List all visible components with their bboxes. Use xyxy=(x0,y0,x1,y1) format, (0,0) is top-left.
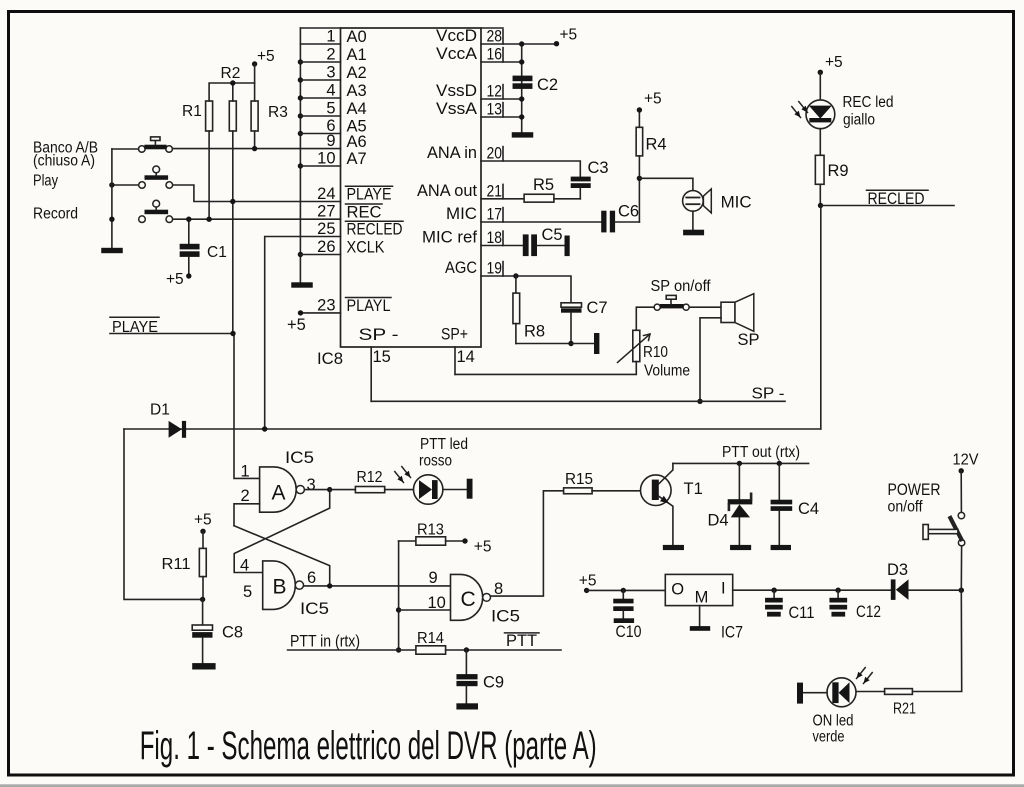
junction rail/Play xyxy=(109,182,114,187)
svg-text:+5: +5 xyxy=(474,538,492,555)
svg-text:RECLED: RECLED xyxy=(347,221,403,239)
svg-text:10: 10 xyxy=(317,150,335,168)
svg-text:RECLED: RECLED xyxy=(868,190,925,208)
wire D1 anode down-left xyxy=(124,429,203,599)
junction rail/Record xyxy=(109,217,114,222)
switch SW1 Banco A/B xyxy=(139,137,173,152)
resistor R15 xyxy=(564,471,652,494)
junction vertical/gateC-in10 xyxy=(396,607,401,612)
capacitor C8 xyxy=(192,599,243,663)
wire PTT out line xyxy=(673,462,809,464)
svg-text:A2: A2 xyxy=(347,64,367,82)
junction R8/C7 xyxy=(568,341,573,346)
svg-text:C9: C9 xyxy=(483,673,504,691)
svg-text:R2: R2 xyxy=(221,65,241,82)
svg-text:SP+: SP+ xyxy=(441,326,468,344)
svg-text:5: 5 xyxy=(243,583,252,601)
svg-text:+5: +5 xyxy=(257,48,275,65)
svg-text:C8: C8 xyxy=(222,623,243,641)
svg-text:4: 4 xyxy=(326,82,335,100)
pin tick 21 xyxy=(502,184,504,198)
ground (C7/R8) xyxy=(594,333,599,354)
svg-text:D4: D4 xyxy=(708,511,729,529)
switch SP on/off xyxy=(654,295,689,310)
IC8 left address bus xyxy=(299,28,301,283)
svg-text:REC: REC xyxy=(347,203,382,221)
microphone MIC xyxy=(683,189,752,213)
wire pin9 A6 (from Banco switch) xyxy=(172,148,340,150)
svg-text:PTT in (rtx): PTT in (rtx) xyxy=(290,633,360,651)
wire pin20 ANA in xyxy=(481,161,580,177)
svg-text:R21: R21 xyxy=(893,700,916,717)
label Banco A/B xyxy=(33,139,98,169)
svg-text:IC5: IC5 xyxy=(300,600,329,618)
svg-text:21: 21 xyxy=(487,182,503,200)
svg-text:REC led: REC led xyxy=(843,94,894,111)
junction C10 xyxy=(621,588,626,593)
svg-text:R15: R15 xyxy=(565,471,593,488)
wire to ground bar xyxy=(571,343,594,345)
svg-text:on/off: on/off xyxy=(888,498,923,515)
resistor R2 xyxy=(221,65,241,131)
svg-text:C6: C6 xyxy=(618,203,639,221)
wire 12V to switch xyxy=(960,471,962,513)
wire gateC out to R15 xyxy=(491,491,564,596)
cross-couple B-out to A-in2 xyxy=(234,526,330,586)
wire pin12 VssD xyxy=(481,98,522,100)
regulator IC7 xyxy=(665,574,732,606)
svg-text:PLAYE: PLAYE xyxy=(347,186,392,204)
wire RECLED vertical xyxy=(820,206,822,430)
svg-text:2: 2 xyxy=(326,46,335,64)
nand gate IC5-A xyxy=(260,467,305,512)
junction R2 top xyxy=(230,80,235,85)
node +5 (pin23) xyxy=(287,310,306,334)
svg-text:I: I xyxy=(721,579,726,597)
wire power down to R21 xyxy=(912,590,961,691)
IC IC8 body xyxy=(300,28,503,347)
svg-text:+5: +5 xyxy=(287,316,306,334)
diode D3 xyxy=(887,561,961,600)
junction R11/gateB-in5 xyxy=(200,597,205,602)
svg-text:C3: C3 xyxy=(588,159,609,177)
svg-text:A1: A1 xyxy=(347,46,367,64)
svg-text:verde: verde xyxy=(813,728,845,745)
svg-text:A3: A3 xyxy=(347,82,367,100)
svg-text:IC8: IC8 xyxy=(317,350,343,368)
pin tick 17 xyxy=(502,208,504,222)
ground (IC7) xyxy=(690,626,710,631)
junction R9/RECLED xyxy=(818,203,823,208)
capacitor C5 xyxy=(523,226,565,256)
pin tick 16 xyxy=(502,48,504,62)
wire R1R2R3 tops xyxy=(209,83,255,101)
resistor R9 xyxy=(815,155,848,184)
wire Vcc bus xyxy=(521,44,523,132)
LED arrows (ON led) xyxy=(864,673,873,684)
junction gateB out xyxy=(327,583,332,588)
junction R4/C6/MIC xyxy=(637,176,642,181)
wire SP- line xyxy=(371,400,785,402)
svg-text:SP -: SP - xyxy=(752,385,785,402)
svg-text:R13: R13 xyxy=(417,521,444,538)
wire gateB out to gateC in9 xyxy=(304,585,451,587)
junction PLAYE/vertical xyxy=(230,331,235,336)
node +5 (IC7) xyxy=(579,572,597,593)
svg-text:IC5: IC5 xyxy=(285,449,314,467)
switch SW3 Record xyxy=(139,200,173,222)
svg-text:C7: C7 xyxy=(587,299,608,317)
svg-text:VssD: VssD xyxy=(436,82,477,100)
IC8 pin label RECLED xyxy=(346,221,404,239)
wire pin16 VccA xyxy=(481,61,522,63)
svg-text:PTT led: PTT led xyxy=(420,436,468,453)
svg-text:23: 23 xyxy=(317,296,335,314)
node +5 (R13) xyxy=(462,538,491,555)
wire speaker to SP- line xyxy=(700,318,721,402)
capacitor C9 xyxy=(456,650,504,703)
net PTT label xyxy=(505,632,540,650)
junction bus/pin5 xyxy=(298,113,303,118)
node 12V xyxy=(953,451,979,473)
svg-text:M: M xyxy=(695,589,709,607)
svg-text:C5: C5 xyxy=(542,226,563,244)
wire pin5 A4 xyxy=(300,115,340,117)
junction bus/pin4 xyxy=(298,95,303,100)
svg-text:18: 18 xyxy=(487,229,503,247)
junction vertical/PTTin xyxy=(396,647,401,652)
ground (IC8 bus) xyxy=(291,282,313,287)
junction RECLED/pin25-vertical xyxy=(262,426,267,431)
svg-text:5: 5 xyxy=(326,100,335,118)
svg-text:+5: +5 xyxy=(579,572,597,589)
wire pin6 A5 xyxy=(300,133,340,135)
label PTT led rosso xyxy=(419,436,468,470)
svg-text:SP on/off: SP on/off xyxy=(651,278,712,295)
wire pin2 A1 xyxy=(300,61,340,63)
svg-text:14: 14 xyxy=(457,348,475,366)
svg-text:XCLK: XCLK xyxy=(347,239,385,257)
nand gate IC5-B xyxy=(263,561,304,610)
wire pin19 AGC xyxy=(481,276,571,303)
wire +5 to LED xyxy=(819,72,821,100)
node +5 (REC led) xyxy=(818,54,843,75)
svg-text:A6: A6 xyxy=(347,133,367,151)
svg-text:26: 26 xyxy=(317,238,335,256)
resistor R13 xyxy=(399,521,465,545)
svg-text:MIC ref: MIC ref xyxy=(422,229,477,247)
wire to MIC xyxy=(639,178,693,190)
pin tick 28 xyxy=(502,30,504,44)
resistor R1 xyxy=(182,101,213,219)
ground (ON led) xyxy=(797,683,803,704)
svg-text:9: 9 xyxy=(326,132,335,150)
ground (C5) xyxy=(565,236,570,257)
svg-text:SP: SP xyxy=(738,331,760,349)
IC8 pin label PLAYE xyxy=(346,186,393,204)
wire R9 to junction xyxy=(819,184,821,205)
node +5 (C1) xyxy=(166,271,192,288)
svg-text:C1: C1 xyxy=(207,244,227,261)
svg-text:C2: C2 xyxy=(537,76,558,94)
ground (switch rail) xyxy=(101,248,123,253)
svg-text:+5: +5 xyxy=(825,54,843,71)
ground (C4) xyxy=(771,545,791,550)
capacitor C12 xyxy=(829,590,881,621)
label POWER on/off xyxy=(888,481,941,516)
svg-text:R1: R1 xyxy=(182,103,202,120)
svg-text:1: 1 xyxy=(326,28,335,46)
capacitor C2 xyxy=(513,76,559,94)
svg-text:D1: D1 xyxy=(150,401,170,418)
ground (D4) xyxy=(730,545,751,550)
svg-text:SP -: SP - xyxy=(359,325,399,344)
svg-text:R11: R11 xyxy=(162,556,191,573)
pin tick 20 xyxy=(502,147,504,161)
junction PTTin/C9 xyxy=(464,647,469,652)
svg-text:B: B xyxy=(273,576,287,599)
svg-text:20: 20 xyxy=(487,145,503,163)
wire IC7 to D3 xyxy=(733,589,891,591)
resistor R14 xyxy=(416,630,561,654)
svg-text:28: 28 xyxy=(487,28,503,46)
wire pin1 A0 xyxy=(300,43,340,45)
svg-text:Record: Record xyxy=(33,206,78,223)
svg-text:MIC: MIC xyxy=(446,205,477,223)
pin tick 12 xyxy=(502,85,504,99)
pin tick 13 xyxy=(502,103,504,117)
svg-text:giallo: giallo xyxy=(843,112,875,129)
svg-text:6: 6 xyxy=(307,569,316,587)
junction bus/pin3 xyxy=(298,77,303,82)
svg-text:C10: C10 xyxy=(616,623,642,641)
wire pin27 REC row xyxy=(173,218,341,220)
svg-text:R9: R9 xyxy=(828,162,849,180)
zener diode D4 xyxy=(708,463,753,545)
junction C1/Record xyxy=(186,217,191,222)
junction pin24/vertical xyxy=(230,199,235,204)
svg-text:3: 3 xyxy=(307,476,316,494)
svg-text:VssA: VssA xyxy=(436,100,477,118)
cross-couple A-out to B-in4 xyxy=(234,490,330,573)
node +5 (pin28) xyxy=(554,26,577,46)
svg-text:27: 27 xyxy=(317,203,335,221)
svg-text:3: 3 xyxy=(326,64,335,82)
speaker SP xyxy=(721,294,760,349)
junction bus/pin10 xyxy=(298,163,303,168)
junction bus/pin2 xyxy=(298,59,303,64)
wire +5 to IC7 xyxy=(587,589,666,591)
svg-text:19: 19 xyxy=(487,260,503,278)
LED PTT led rosso xyxy=(414,475,443,504)
svg-text:Play: Play xyxy=(33,172,58,189)
svg-text:C11: C11 xyxy=(789,604,815,622)
potentiometer R10 xyxy=(618,330,691,379)
svg-text:PLAYL: PLAYL xyxy=(347,297,391,315)
junction AGC/R8 xyxy=(513,273,518,278)
junction bus/pin6 xyxy=(298,131,303,136)
wire pin4 A3 xyxy=(300,97,340,99)
junction Vcc/pin16 xyxy=(519,59,524,64)
resistor R12 xyxy=(330,469,414,493)
svg-text:+5: +5 xyxy=(644,90,662,107)
svg-text:D3: D3 xyxy=(887,561,908,579)
svg-text:ANA in: ANA in xyxy=(427,144,477,162)
svg-text:25: 25 xyxy=(317,220,335,238)
wire PTT in line xyxy=(288,649,416,651)
ground (PTT led) xyxy=(467,479,473,499)
node +5 (R4) xyxy=(637,90,662,112)
switch SW2 Play xyxy=(139,166,173,188)
svg-text:R10: R10 xyxy=(643,344,668,361)
svg-text:POWER: POWER xyxy=(888,481,941,499)
junction PTTout/D4 xyxy=(737,461,742,466)
wire gateA out xyxy=(305,489,330,491)
switch POWER on/off xyxy=(923,512,965,546)
wire SW2 left to rail xyxy=(112,184,139,186)
junction Vcc/pin13 xyxy=(519,114,524,119)
wire RECLED horizontal xyxy=(124,428,821,430)
svg-text:17: 17 xyxy=(487,206,503,224)
capacitor C10 xyxy=(613,590,641,641)
svg-text:R5: R5 xyxy=(533,176,554,194)
label REC led giallo xyxy=(843,94,894,129)
LED arrows (PTT led) xyxy=(395,472,404,483)
junction gateA out xyxy=(327,487,332,492)
capacitor C6 xyxy=(601,178,639,232)
ground (C11) xyxy=(767,612,781,617)
wire pin18 MIC ref xyxy=(481,245,523,247)
wire switch to D3 junction xyxy=(960,546,962,590)
svg-text:C12: C12 xyxy=(856,603,881,621)
wire pin13 VssA xyxy=(481,116,522,118)
junction C12 xyxy=(835,588,840,593)
wire R10 to switch xyxy=(636,307,654,330)
junction speaker/SP- xyxy=(697,399,702,404)
svg-text:12V: 12V xyxy=(953,451,979,468)
svg-text:12: 12 xyxy=(487,83,503,101)
label ON led verde xyxy=(813,713,854,746)
svg-text:O: O xyxy=(671,580,684,598)
capacitor C7 xyxy=(561,299,608,344)
resistor R3 xyxy=(251,101,288,149)
LED arrows (REC led) xyxy=(792,107,801,118)
svg-text:15: 15 xyxy=(373,348,391,366)
svg-text:+5: +5 xyxy=(560,26,578,43)
svg-text:T1: T1 xyxy=(684,480,703,498)
node +5 (R1R2R3) xyxy=(252,48,275,83)
svg-text:A: A xyxy=(272,482,286,505)
svg-text:A0: A0 xyxy=(347,28,367,46)
junction C11 xyxy=(771,588,776,593)
ground (C2) xyxy=(512,132,534,137)
wire LED to bar xyxy=(443,489,467,491)
wire SW1 left to rail xyxy=(112,148,139,150)
ground (C9) xyxy=(456,703,478,709)
svg-text:PTT out (rtx): PTT out (rtx) xyxy=(722,444,800,461)
svg-text:2: 2 xyxy=(241,487,250,505)
capacitor C4 xyxy=(771,463,819,545)
svg-text:rosso: rosso xyxy=(419,453,452,470)
diode D1 xyxy=(150,401,186,438)
svg-text:(chiuso A): (chiuso A) xyxy=(33,153,95,170)
wire pin17 MIC xyxy=(481,221,601,223)
capacitor C3 xyxy=(571,159,609,199)
LED ON led verde xyxy=(827,678,856,707)
junction Vcc/pin12 xyxy=(519,96,524,101)
junction R3/pin9 xyxy=(252,146,257,151)
svg-text:MIC: MIC xyxy=(721,193,752,211)
net PLAYE label xyxy=(110,317,159,336)
resistor R8 xyxy=(513,276,571,344)
svg-text:10: 10 xyxy=(428,594,446,612)
svg-text:ON led: ON led xyxy=(813,713,854,730)
capacitor C1 xyxy=(180,219,227,276)
node +5 (R11) xyxy=(194,512,212,534)
svg-text:16: 16 xyxy=(487,46,503,64)
wire R13/in10/PTT vertical xyxy=(398,541,400,650)
IC8 pin label PLAYL xyxy=(346,297,392,315)
nand gate IC5-C xyxy=(451,574,491,620)
svg-text:R12: R12 xyxy=(357,469,383,486)
svg-text:C: C xyxy=(461,588,476,611)
wire pin21 ANA out xyxy=(481,198,524,200)
junction D3/power xyxy=(959,588,964,593)
svg-text:IC5: IC5 xyxy=(491,608,520,626)
wire pin10 A7 xyxy=(300,165,340,167)
gateA pin2 xyxy=(234,487,260,526)
svg-text:R4: R4 xyxy=(646,135,667,153)
wire switch to speaker xyxy=(689,306,721,308)
ground (T1 emitter) xyxy=(663,545,684,550)
ground (C10) xyxy=(614,618,634,623)
wire pin25 RECLED row to vertical xyxy=(265,237,341,430)
IC8 pin label REC xyxy=(346,203,383,221)
resistor R11 xyxy=(162,531,207,599)
wire pin23 PLAYL xyxy=(301,312,341,314)
svg-text:C4: C4 xyxy=(798,500,819,518)
wire R2/pin24/gateA-in1 vertical xyxy=(233,131,260,478)
svg-text:+5: +5 xyxy=(194,512,212,529)
pin tick 18 xyxy=(502,231,504,245)
junction Vcc/pin28 xyxy=(519,41,524,46)
LED REC led giallo xyxy=(806,100,835,129)
svg-text:A4: A4 xyxy=(347,100,367,118)
svg-text:VccA: VccA xyxy=(436,45,477,63)
svg-text:ANA out: ANA out xyxy=(417,182,477,200)
svg-text:24: 24 xyxy=(317,185,335,203)
svg-text:+5: +5 xyxy=(166,271,184,288)
wire MIC to ground xyxy=(692,211,694,230)
wire PLAYE label stub xyxy=(110,333,233,335)
resistor R4 xyxy=(636,110,666,178)
wire IC7 M to ground xyxy=(699,606,701,627)
ground (MIC) xyxy=(683,230,704,236)
wire rail xyxy=(111,149,113,248)
svg-text:R8: R8 xyxy=(524,323,545,341)
resistor R5 xyxy=(524,176,580,202)
junction R1/Record xyxy=(206,217,211,222)
svg-text:VccD: VccD xyxy=(436,27,477,45)
scan edge strip bottom xyxy=(0,784,1024,787)
junction PTTout/C4 xyxy=(777,461,782,466)
svg-text:PTT: PTT xyxy=(506,632,537,650)
svg-text:IC7: IC7 xyxy=(721,624,743,642)
pin 15 stub SP- xyxy=(371,347,391,401)
wire pin14 to R10 xyxy=(455,362,636,375)
ground (C8) xyxy=(192,663,215,669)
net RECLED label xyxy=(821,190,955,208)
